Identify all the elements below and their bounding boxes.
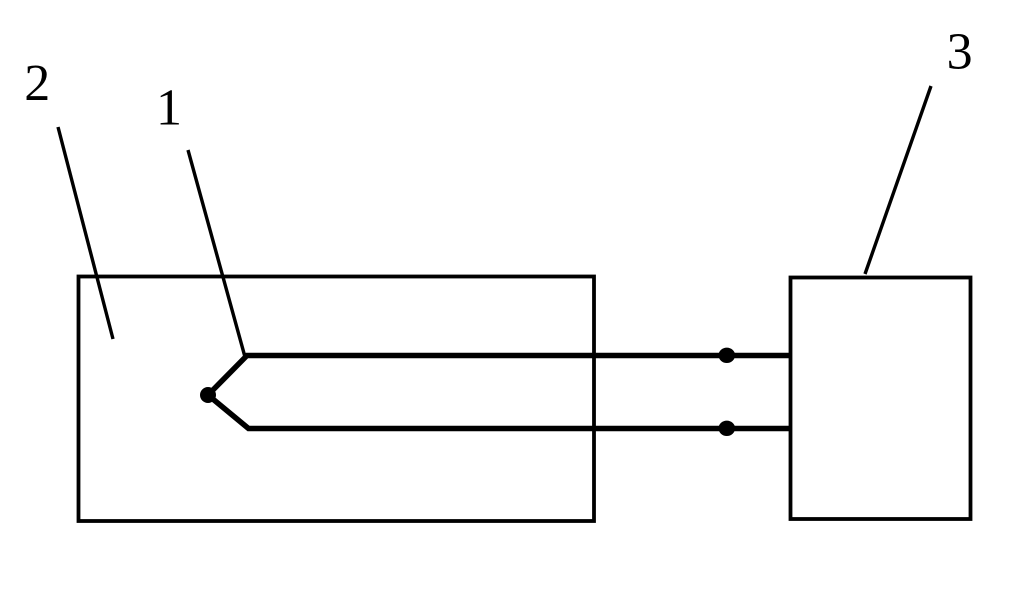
wire: lower thermocouple leg [208, 395, 790, 429]
leader line for label 1 [188, 150, 245, 357]
wire: upper thermocouple leg [208, 356, 790, 396]
enclosure box 2 (measured zone) [79, 277, 595, 522]
instrument box 3 [791, 278, 971, 520]
leader line for label 2 [58, 127, 113, 339]
svg-text:2: 2 [24, 55, 50, 112]
svg-text:1: 1 [156, 79, 182, 136]
leader line for label 3 [865, 86, 931, 274]
node: lower terminal junction [719, 421, 736, 436]
node: upper terminal junction [719, 348, 736, 363]
node: thermocouple junction 1 [200, 387, 216, 403]
svg-text:3: 3 [947, 24, 973, 81]
